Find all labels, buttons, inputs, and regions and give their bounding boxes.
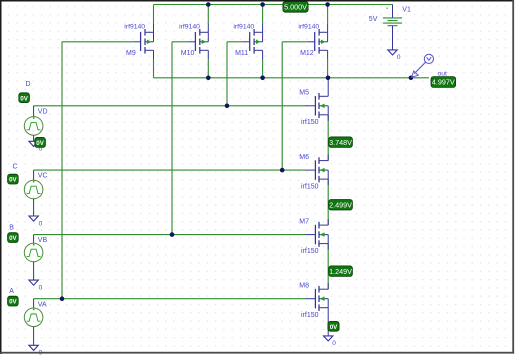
window border top <box>0 0 514 2</box>
wire VA negative pin to ground <box>33 327 35 346</box>
voltage source VC (pulse) <box>24 180 43 199</box>
svg-text:0: 0 <box>39 284 43 291</box>
svg-text:V1: V1 <box>402 6 411 13</box>
svg-text:4.997V: 4.997V <box>432 78 455 87</box>
wire VD negative pin to ground <box>33 135 35 141</box>
svg-text:1.249V: 1.249V <box>329 267 352 276</box>
svg-text:irf9140: irf9140 <box>179 23 200 30</box>
wire M10 gate vertical to row B <box>171 42 173 235</box>
junction on out bus <box>409 76 414 81</box>
ground below VD <box>29 141 38 146</box>
svg-text:5V: 5V <box>369 16 378 23</box>
svg-text:M6: M6 <box>299 154 309 161</box>
wire row D to VD positive pin <box>33 106 35 117</box>
bias box 3.748V between M5 and M6 <box>329 137 353 148</box>
wire input row A <box>34 298 305 300</box>
wire M9 drain to out bus <box>153 50 155 59</box>
svg-text:A: A <box>9 288 14 295</box>
voltage source VD (pulse) <box>24 117 43 136</box>
junction row C / M12 gate <box>280 168 285 173</box>
wire row C to VC positive pin <box>33 170 35 180</box>
svg-text:VA: VA <box>38 301 47 308</box>
junction on VDD rail <box>260 2 265 7</box>
svg-text:M11: M11 <box>235 50 248 57</box>
junction row A / M9 gate <box>60 296 65 301</box>
svg-text:0: 0 <box>39 220 43 227</box>
transistor M9 (PMOS irf9140) <box>141 29 154 54</box>
junction row D / M11 gate <box>225 104 230 109</box>
svg-text:0: 0 <box>397 54 401 61</box>
wire M11 gate vertical to row D <box>226 42 228 106</box>
svg-text:irf150: irf150 <box>301 183 319 190</box>
svg-text:irf150: irf150 <box>301 312 319 319</box>
wire VC negative pin to ground <box>33 199 35 216</box>
svg-text:0V: 0V <box>20 95 28 102</box>
wire M10 gate lead <box>172 41 188 43</box>
svg-text:0V: 0V <box>9 235 17 242</box>
wire M9 source to VDD rail <box>153 5 155 25</box>
svg-text:VD: VD <box>38 108 48 115</box>
svg-text:VB: VB <box>38 237 48 244</box>
window border left <box>0 0 2 354</box>
bias box 1.249V between M7 and M8 <box>329 266 353 277</box>
wire M11 drain to out bus <box>262 50 264 59</box>
svg-text:irf150: irf150 <box>301 248 319 255</box>
svg-text:irf9140: irf9140 <box>233 23 254 30</box>
svg-text:M8: M8 <box>299 283 309 290</box>
junction on VDD rail <box>206 2 211 7</box>
bias box 0V at node D <box>19 93 30 103</box>
wire M5 source to M6 drain <box>327 115 329 161</box>
svg-text:5.000V: 5.000V <box>284 2 307 11</box>
wire M9 gate vertical to row A <box>61 42 63 299</box>
ground below VC <box>29 216 38 221</box>
wire M11 source to VDD rail <box>262 5 264 25</box>
wire M12 gate vertical to row C <box>281 42 283 170</box>
svg-text:irf9140: irf9140 <box>124 23 145 30</box>
svg-text:0V: 0V <box>36 140 44 147</box>
window border right <box>512 0 514 354</box>
junction on out bus <box>326 76 331 81</box>
voltage probe at node out <box>412 54 434 77</box>
voltage source VA (pulse) <box>24 308 43 327</box>
bias box 0V at node C <box>8 174 19 184</box>
junction row B / M10 gate <box>170 232 175 237</box>
wire M11 gate lead <box>227 41 242 43</box>
transistor M8 (NMOS irf150) <box>315 286 328 311</box>
junction on out bus <box>260 76 265 81</box>
transistor M7 (NMOS irf150) <box>315 222 328 247</box>
wire VB negative pin to ground <box>33 262 35 280</box>
wire input row D <box>34 105 305 107</box>
window border bottom <box>0 352 514 354</box>
wire VDD top rail <box>154 4 393 6</box>
wire out bus to M5 drain <box>327 78 329 97</box>
ground below VB <box>29 280 38 285</box>
svg-text:M9: M9 <box>126 50 136 57</box>
svg-text:M5: M5 <box>299 90 309 97</box>
svg-text:0: 0 <box>332 340 336 347</box>
svg-text:D: D <box>26 81 31 88</box>
bias box 0V at node B <box>8 233 19 243</box>
svg-text:M7: M7 <box>299 218 309 225</box>
wire M6 source to M7 drain <box>327 179 329 225</box>
svg-text:irf9140: irf9140 <box>298 23 319 30</box>
wire M7 source to M8 drain <box>327 244 329 290</box>
svg-text:3.748V: 3.748V <box>329 138 352 147</box>
bias box 0V at VD ground <box>35 137 46 147</box>
wire input row B <box>34 234 305 236</box>
svg-text:M12: M12 <box>300 50 314 57</box>
voltage source V1 (5V battery) <box>383 8 402 50</box>
bias box 5.000V on VDD rail <box>283 2 308 13</box>
svg-text:M10: M10 <box>181 50 195 57</box>
svg-text:2.499V: 2.499V <box>329 200 352 209</box>
wire row B to VB positive pin <box>33 235 35 244</box>
junction on out bus <box>206 76 211 81</box>
wire out bus <box>154 77 430 79</box>
wire M8 source to ground <box>327 308 329 336</box>
transistor M11 (PMOS irf9140) <box>250 29 263 54</box>
bias box 2.499V between M6 and M7 <box>329 200 353 211</box>
transistor M10 (PMOS irf9140) <box>195 29 208 54</box>
wire row A to VA positive pin <box>33 299 35 308</box>
ground below VA <box>29 345 38 350</box>
transistor M5 (NMOS irf150) <box>315 93 328 118</box>
svg-text:C: C <box>13 164 18 171</box>
svg-text:0V: 0V <box>9 299 17 306</box>
svg-text:0V: 0V <box>9 177 17 184</box>
transistor M12 (PMOS irf9140) <box>315 29 328 54</box>
bias box 0V at M8 source <box>328 321 339 331</box>
wire M12 gate lead <box>282 41 307 43</box>
wire M10 drain to out bus <box>207 50 209 59</box>
ground below V1 <box>388 50 397 55</box>
wire M12 drain to out bus <box>327 50 329 59</box>
wire M12 source to VDD rail <box>327 5 329 25</box>
svg-text:VC: VC <box>38 173 48 180</box>
wire M10 source to VDD rail <box>207 5 209 25</box>
svg-text:B: B <box>9 224 14 231</box>
wire VDD rail to V1 positive pin <box>392 5 394 18</box>
voltage source VB (pulse) <box>24 243 43 262</box>
bias box 0V at node A <box>8 296 19 306</box>
svg-text:irf150: irf150 <box>301 119 319 126</box>
bias box 4.997V at node out <box>431 77 456 88</box>
svg-text:0V: 0V <box>330 324 338 331</box>
transistor M6 (NMOS irf150) <box>315 157 328 182</box>
wire M9 gate lead <box>62 41 133 43</box>
wire input row C <box>34 169 305 171</box>
ground below M8 <box>324 336 333 341</box>
junction on VDD rail <box>325 2 330 7</box>
